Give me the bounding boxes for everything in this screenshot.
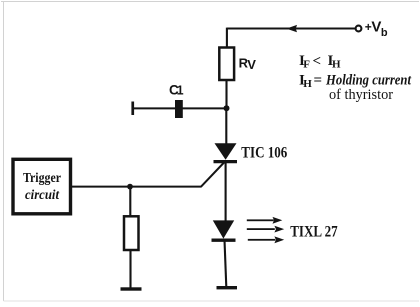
thyristor gate wire <box>201 162 225 187</box>
wire: junction down to thyristor anode <box>225 108 227 145</box>
current direction arrow on top rail <box>286 25 297 32</box>
svg-text:=: = <box>314 73 323 89</box>
svg-text:of thyristor: of thyristor <box>329 87 393 103</box>
annotation line 1: IF < IH <box>299 53 341 71</box>
trigger circuit box <box>13 159 71 214</box>
wire: junction down to resistor <box>129 187 131 217</box>
svg-text:Trigger: Trigger <box>23 171 61 186</box>
svg-text:circuit: circuit <box>25 188 60 203</box>
wire: capacitor branch horizontal <box>133 107 226 109</box>
thyristor cathode bar <box>214 160 238 163</box>
node: +Vb terminal circle <box>356 26 362 32</box>
wire: from top rail corner down to RV <box>226 28 228 48</box>
capacitor C1 left terminal bar <box>131 102 134 116</box>
wire: resistor down to ground <box>129 250 131 288</box>
LED cathode bar <box>212 238 236 241</box>
annotation line 2: IH = Holding current <box>299 73 412 91</box>
capacitor C1 plate <box>175 100 183 118</box>
LED emission arrow 1 <box>247 217 282 224</box>
wire: thyristor cathode down to LED anode <box>225 162 227 222</box>
svg-text:b: b <box>381 27 388 39</box>
svg-text:<: < <box>313 54 322 70</box>
resistor (gate pull-down) <box>124 216 139 250</box>
node: junction of C1 branch and main line <box>224 105 230 111</box>
svg-text:1: 1 <box>177 84 184 98</box>
wire: trigger box output to gate diagonal <box>72 186 202 188</box>
LED emission arrow 2 <box>247 226 284 233</box>
wire: LED cathode down to ground <box>225 240 227 287</box>
LED emission arrow 3 <box>248 236 284 243</box>
ground: right ground bar <box>217 286 238 289</box>
svg-text:TIC 106: TIC 106 <box>241 144 287 161</box>
svg-text:F: F <box>303 59 310 71</box>
wire: top rail to +Vb terminal <box>227 28 355 30</box>
node: junction on gate wire <box>127 184 133 190</box>
wire: RV bottom to junction <box>225 80 227 108</box>
ground: left ground bar <box>121 287 142 290</box>
svg-text:V: V <box>247 57 256 72</box>
svg-text:H: H <box>303 78 312 90</box>
resistor RV <box>219 48 234 81</box>
LED TIXL 27 triangle <box>213 220 234 238</box>
svg-text:TIXL 27: TIXL 27 <box>290 223 338 240</box>
thyristor TIC 106 triangle <box>215 143 237 160</box>
svg-text:H: H <box>332 59 341 71</box>
